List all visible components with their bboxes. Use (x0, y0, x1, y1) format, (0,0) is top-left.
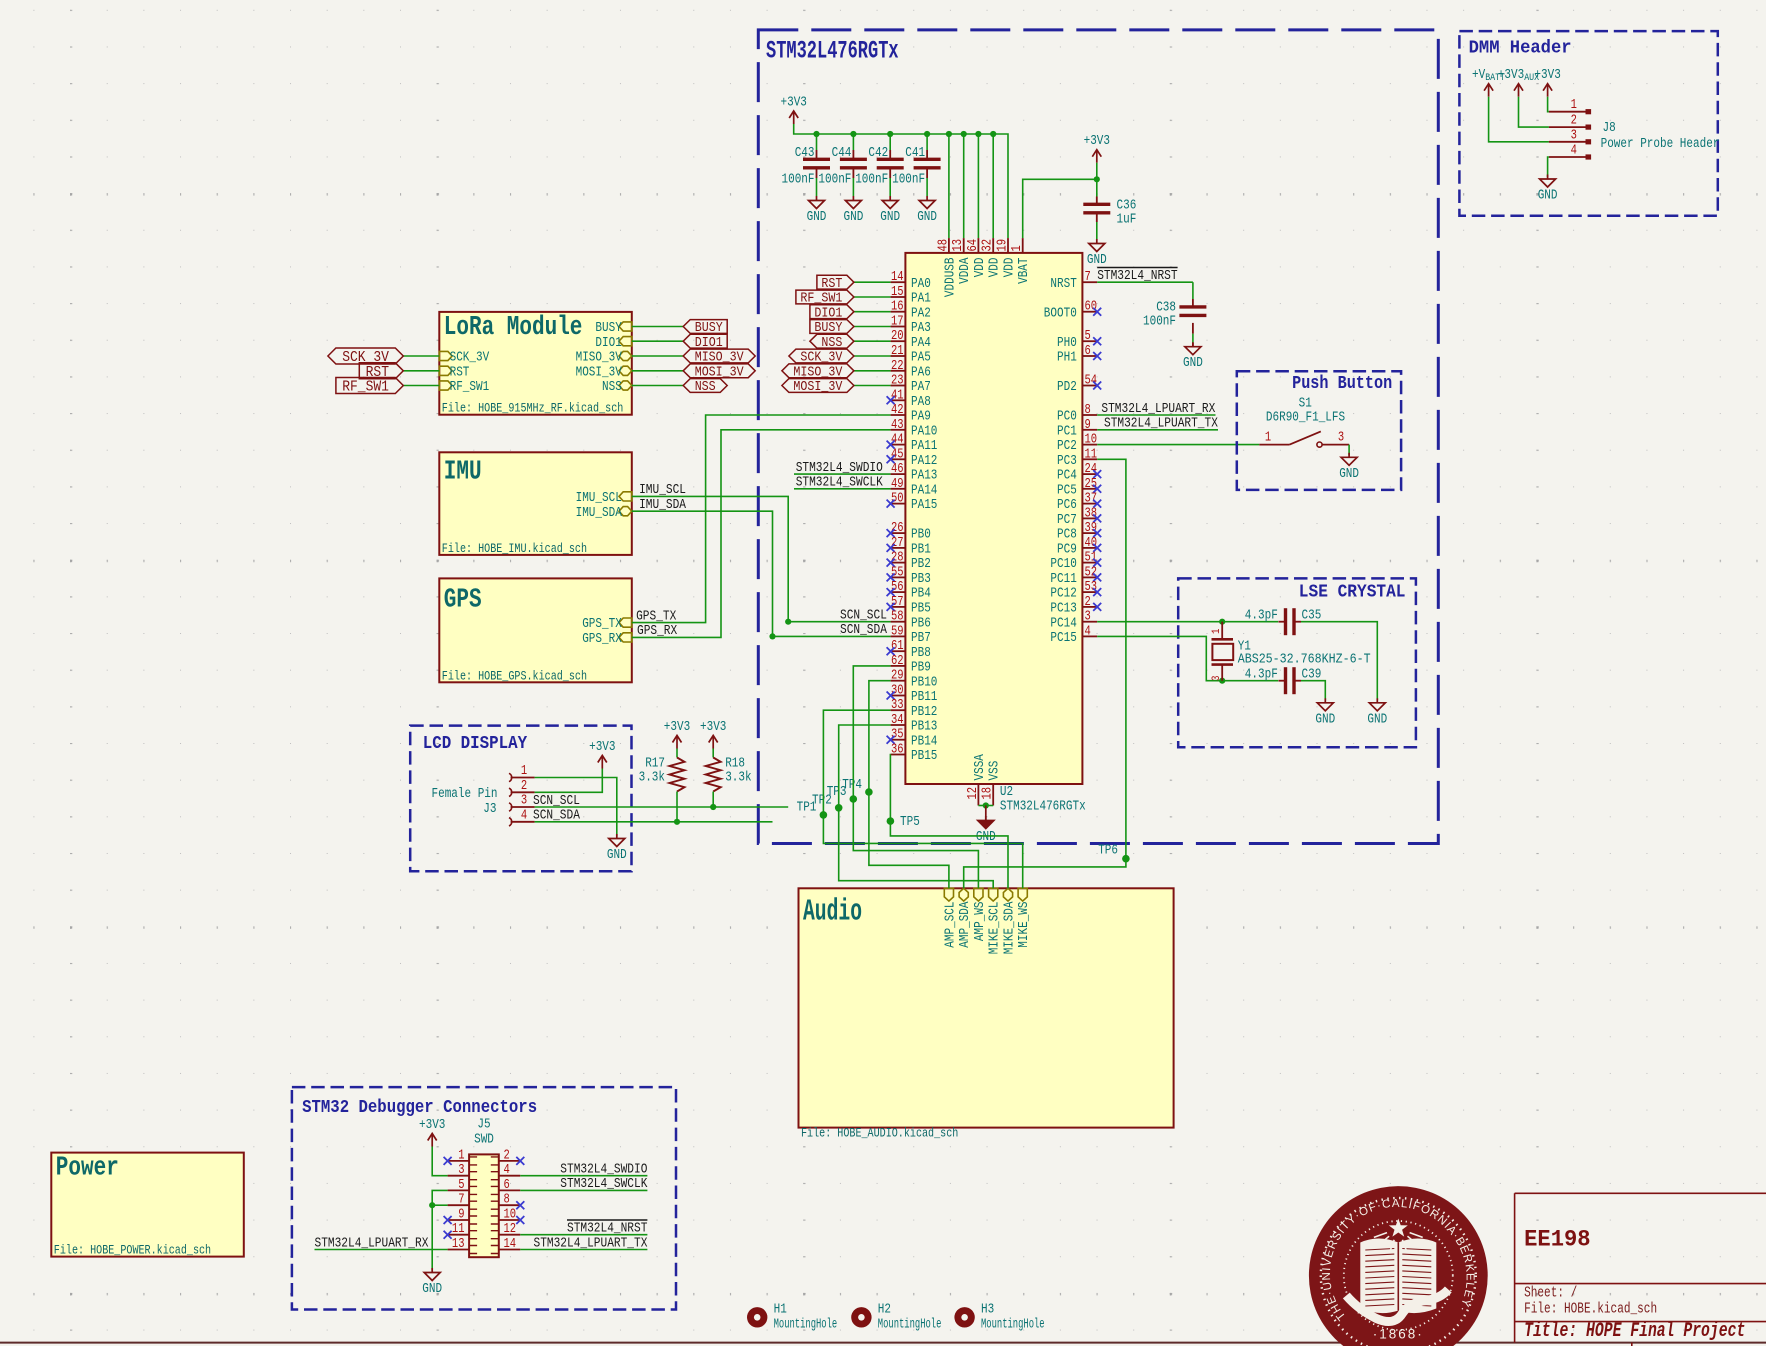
U2 pin 13 VDDA (963, 238, 965, 253)
svg-text:PA8: PA8 (911, 395, 931, 410)
junction (769, 633, 775, 639)
svg-text:7: 7 (1085, 270, 1091, 285)
U2 pin 10 PC2 (1082, 444, 1097, 446)
sheet pin IMU_SCL (619, 492, 632, 501)
U2 pin 5 PH0 (1082, 340, 1097, 342)
power +VBATT (1484, 84, 1493, 91)
svg-text:3: 3 (458, 1163, 464, 1178)
wire +3V3 to J3 pin2 (535, 769, 603, 793)
svg-text:PA6: PA6 (911, 365, 931, 380)
wire STM32L4_LPUART_RX to J5 pin13 (315, 1249, 448, 1251)
wire PB15 to MIKE_SDA (890, 755, 1008, 889)
wire PC3 to TP6 (1097, 459, 1126, 858)
power +3V3 (598, 756, 607, 763)
svg-text:GND: GND (1367, 712, 1387, 727)
svg-text:10: 10 (1085, 433, 1098, 448)
svg-text:File: HOBE_GPS.kicad_sch: File: HOBE_GPS.kicad_sch (442, 668, 587, 683)
sheet pin AMP_SCL (944, 888, 953, 901)
svg-text:Title: HOPE Final Project: Title: HOPE Final Project (1524, 1320, 1745, 1343)
svg-text:PB9: PB9 (911, 661, 931, 676)
svg-text:+3V3: +3V3 (664, 720, 690, 735)
svg-text:100nF: 100nF (855, 172, 888, 187)
svg-text:D6R90_F1_LFS: D6R90_F1_LFS (1266, 411, 1345, 426)
svg-text:STM32L4_LPUART_RX: STM32L4_LPUART_RX (1101, 401, 1215, 417)
U2 pin 56 PB4 (891, 591, 906, 593)
U2 pin 22 PA6 (891, 370, 906, 372)
svg-text:SWD: SWD (474, 1133, 494, 1148)
svg-text:AMP_SCL: AMP_SCL (943, 902, 958, 948)
svg-text:PH0: PH0 (1057, 336, 1077, 351)
sheet pin IMU_SDA (619, 507, 632, 516)
svg-text:GPS_TX: GPS_TX (636, 608, 677, 624)
no-connect (887, 736, 895, 744)
svg-text:C44: C44 (832, 146, 852, 161)
no-connect (1093, 382, 1101, 390)
U2 pin 18 VSS (992, 784, 994, 806)
svg-text:Sheet: /: Sheet: / (1524, 1285, 1577, 1302)
svg-text:1: 1 (1211, 628, 1223, 634)
svg-text:4.3pF: 4.3pF (1245, 608, 1278, 623)
global label BUSY (683, 320, 727, 334)
U2 pin 26 PB0 (891, 532, 906, 534)
svg-text:PB0: PB0 (911, 528, 931, 543)
svg-text:23: 23 (891, 374, 904, 389)
global label NSS (810, 334, 854, 348)
svg-text:PB3: PB3 (911, 572, 931, 587)
ground (926, 196, 928, 201)
svg-text:2: 2 (504, 1148, 510, 1163)
U2 pin 40 PC9 (1082, 547, 1097, 549)
no-connect (887, 588, 895, 596)
svg-text:PC7: PC7 (1057, 513, 1077, 528)
svg-text:C43: C43 (795, 146, 815, 161)
wire SCK_3V to U2 (854, 355, 891, 357)
wire PB12 to MIKE_WS (823, 710, 1022, 888)
svg-text:SCK_3V: SCK_3V (450, 351, 490, 366)
svg-text:PA12: PA12 (911, 454, 937, 469)
U2 pin 7 NRST (1082, 281, 1097, 283)
U2 pin 24 PC4 (1082, 473, 1097, 475)
junction (710, 804, 716, 810)
U2 pin 38 PC7 (1082, 517, 1097, 519)
wire VDD supply (948, 134, 950, 238)
power +3V3 (1092, 150, 1101, 157)
junction (924, 131, 930, 137)
svg-text:8: 8 (1085, 403, 1091, 418)
hierarchical sheet Audio (799, 888, 1174, 1127)
svg-text:PC10: PC10 (1050, 557, 1076, 572)
U2 pin 58 PB6 (891, 621, 906, 623)
svg-text:PA0: PA0 (911, 277, 931, 292)
no-connect (516, 1216, 524, 1224)
U2 pin 12 VSSA (977, 784, 979, 806)
U2 pin 36 PB15 (891, 754, 906, 756)
svg-text:16: 16 (891, 300, 904, 315)
svg-text:PC2: PC2 (1057, 439, 1077, 454)
ground (616, 834, 618, 839)
U2 pin 35 PB14 (891, 739, 906, 741)
svg-text:J8: J8 (1603, 121, 1616, 136)
svg-text:GND: GND (1183, 356, 1203, 371)
svg-text:PA9: PA9 (911, 410, 931, 425)
capacitor C42 100nF (889, 150, 891, 159)
svg-text:PB11: PB11 (911, 690, 937, 705)
ground (889, 196, 891, 201)
svg-text:File: HOBE.kicad_sch: File: HOBE.kicad_sch (1524, 1301, 1657, 1318)
svg-text:4: 4 (521, 808, 527, 823)
J5 pin 3 (448, 1175, 470, 1177)
svg-text:7: 7 (458, 1193, 464, 1208)
test point TP2 (835, 804, 843, 812)
hierarchical sheet GPS (439, 578, 632, 682)
svg-text:PA14: PA14 (911, 483, 937, 498)
crystal Y1 ABS25-32.768KHZ-6-T (1221, 622, 1223, 640)
svg-text:64: 64 (966, 239, 981, 252)
J3 pin 1 (509, 773, 512, 781)
wire +3V3 to J5 pin3 (432, 1147, 447, 1176)
global label SCK_3V (328, 348, 403, 364)
J5 pin 10 (499, 1219, 521, 1221)
svg-text:58: 58 (891, 610, 904, 625)
capacitor C44 100nF (852, 150, 854, 159)
ground (1096, 239, 1098, 244)
junction (946, 131, 952, 137)
no-connect (887, 692, 895, 700)
svg-text:PA7: PA7 (911, 380, 931, 395)
svg-text:S1: S1 (1299, 397, 1312, 412)
U2 pin 59 PB7 (891, 635, 906, 637)
svg-text:GND: GND (1315, 712, 1335, 727)
svg-text:GPS: GPS (444, 585, 482, 615)
annotation box STM32L476RGTx section (758, 30, 1438, 844)
U2 pin 44 PA11 (891, 444, 906, 446)
svg-text:43: 43 (891, 418, 904, 433)
wire J8 pin4 to GND (1548, 157, 1549, 177)
U2 pin 20 PA4 (891, 340, 906, 342)
svg-text:6: 6 (1085, 344, 1091, 359)
svg-text:48: 48 (936, 239, 951, 252)
capacitor C35 4.3pF (1284, 608, 1287, 635)
svg-text:STM32L4_NRST: STM32L4_NRST (567, 1221, 647, 1237)
sheet pin NSS (619, 381, 632, 390)
sheet pin MOSI_3V (619, 366, 632, 375)
power +3V3 (673, 736, 682, 743)
junction (1094, 176, 1100, 182)
power +3V3 (789, 111, 798, 118)
no-connect (516, 1201, 524, 1209)
ground (1348, 453, 1350, 458)
svg-text:NRST: NRST (1050, 277, 1076, 292)
svg-text:1: 1 (1010, 245, 1025, 251)
no-connect (1093, 500, 1101, 508)
svg-text:32: 32 (981, 239, 996, 252)
svg-text:SCN_SCL: SCN_SCL (533, 793, 580, 809)
svg-text:GND: GND (844, 210, 864, 225)
svg-text:STM32 Debugger Connectors: STM32 Debugger Connectors (302, 1098, 537, 1118)
svg-text:100nF: 100nF (892, 172, 925, 187)
global label MOSI_3V (782, 379, 854, 393)
svg-text:NSS: NSS (695, 380, 716, 395)
no-connect (1093, 514, 1101, 522)
hierarchical sheet IMU (439, 452, 632, 555)
wire STM32L4_SWCLK stub (794, 488, 891, 490)
no-connect (1093, 573, 1101, 581)
svg-text:Female Pin: Female Pin (432, 787, 498, 802)
svg-text:BUSY: BUSY (595, 321, 621, 336)
svg-text:5: 5 (1085, 329, 1091, 344)
svg-text:PC5: PC5 (1057, 483, 1077, 498)
J5 pin 5 (448, 1189, 470, 1191)
svg-text:GND: GND (807, 210, 827, 225)
svg-text:+3V3: +3V3 (1084, 134, 1110, 149)
wire MISO_3V from LoRa (632, 355, 683, 357)
svg-text:20: 20 (891, 329, 904, 344)
U2 pin 16 PA2 (891, 311, 906, 313)
svg-text:VDDUSB: VDDUSB (943, 258, 958, 298)
svg-text:STM32L4_SWDIO: STM32L4_SWDIO (796, 460, 883, 476)
svg-text:File: HOBE_915MHz_RF.kicad_sch: File: HOBE_915MHz_RF.kicad_sch (442, 401, 624, 416)
svg-text:File: HOBE_POWER.kicad_sch: File: HOBE_POWER.kicad_sch (54, 1243, 211, 1258)
svg-text:TP5: TP5 (900, 815, 920, 830)
logo UC Berkeley seal (1309, 1186, 1488, 1346)
svg-text:44: 44 (891, 433, 904, 448)
junction (990, 131, 996, 137)
capacitor C38 100nF (1179, 305, 1206, 308)
svg-text:11: 11 (452, 1222, 465, 1237)
title block (1514, 1193, 1516, 1342)
svg-text:PB4: PB4 (911, 587, 931, 602)
U2 pin 50 PA15 (891, 503, 906, 505)
no-connect (887, 500, 895, 508)
svg-text:PB14: PB14 (911, 734, 937, 749)
wire +3V3 rail (794, 124, 1008, 238)
svg-text:GND: GND (1538, 189, 1558, 204)
svg-text:H1: H1 (774, 1303, 787, 1318)
svg-text:R18: R18 (725, 757, 745, 772)
svg-text:56: 56 (891, 580, 904, 595)
wire IMU_SDA / SCN_SDA (632, 511, 773, 636)
svg-text:MountingHole: MountingHole (774, 1317, 838, 1333)
J5 pin 1 (448, 1160, 470, 1162)
svg-text:1: 1 (521, 764, 527, 779)
svg-text:Power: Power (56, 1154, 119, 1184)
svg-text:IMU: IMU (444, 457, 482, 487)
svg-text:IMU_SCL: IMU_SCL (639, 482, 686, 498)
svg-text:GND: GND (1339, 467, 1359, 482)
ground (852, 196, 854, 201)
svg-text:C36: C36 (1117, 198, 1137, 213)
svg-text:AMP_WS: AMP_WS (973, 902, 988, 942)
U2 pin 42 PA9 (891, 414, 906, 416)
sheet pin MIKE_SDA (1003, 888, 1012, 901)
global label RF_SW1 (336, 378, 403, 394)
svg-text:13: 13 (951, 239, 966, 252)
wire MOSI_3V from LoRa (632, 370, 683, 372)
J3 pin 3 (509, 803, 512, 811)
svg-text:+3V3: +3V3 (1498, 68, 1524, 83)
mounting hole H1 (747, 1307, 767, 1327)
wire VSS to GND (978, 805, 993, 807)
junction (429, 1202, 435, 1208)
U2 pin 17 PA3 (891, 326, 906, 328)
svg-text:PB5: PB5 (911, 602, 931, 617)
sheet pin MISO_3V (619, 351, 632, 360)
svg-text:27: 27 (891, 536, 904, 551)
ground (431, 1268, 433, 1273)
wire C35 to GND (1301, 622, 1377, 701)
junction (785, 619, 791, 625)
svg-text:PA4: PA4 (911, 336, 931, 351)
no-connect (1093, 603, 1101, 611)
no-connect (887, 441, 895, 449)
junction (887, 131, 893, 137)
svg-text:GPS_RX: GPS_RX (582, 632, 622, 647)
svg-text:19: 19 (996, 239, 1011, 252)
test point TP1 (820, 811, 828, 819)
svg-text:61: 61 (891, 639, 904, 654)
annotation box LSE CRYSTAL section (1178, 578, 1416, 747)
connector J5 SWD body (469, 1154, 499, 1257)
wire STM32L4_SWDIO stub (794, 473, 891, 475)
no-connect (516, 1157, 524, 1165)
svg-text:VDD: VDD (1003, 258, 1018, 278)
svg-text:PA13: PA13 (911, 469, 937, 484)
svg-text:VBAT: VBAT (1017, 258, 1032, 284)
U2 pin 1 VBAT (1022, 238, 1024, 253)
svg-text:J5: J5 (477, 1118, 490, 1133)
U2 pin 25 PC5 (1082, 488, 1097, 490)
svg-text:12: 12 (504, 1222, 517, 1237)
U2 pin 60 BOOT0 (1082, 311, 1097, 313)
svg-text:PA1: PA1 (911, 292, 931, 307)
capacitor C39 4.3pF (1284, 667, 1287, 694)
svg-text:RF_SW1: RF_SW1 (342, 379, 389, 396)
global label DIO1 (810, 305, 854, 319)
svg-text:BOOT0: BOOT0 (1044, 306, 1077, 321)
wire J5 pin5/pin7 to GND (432, 1190, 447, 1270)
wire SCN_SCL (535, 806, 789, 808)
svg-text:12: 12 (966, 787, 981, 800)
test point TP3 (850, 795, 858, 803)
svg-text:18: 18 (981, 787, 996, 800)
global label MISO_3V (683, 349, 755, 363)
svg-text:13: 13 (452, 1237, 465, 1252)
wire STM32L4_SWDIO from J5 pin4 (520, 1175, 647, 1177)
svg-text:C42: C42 (868, 146, 888, 161)
svg-text:45: 45 (891, 447, 904, 462)
U2 pin 4 PC15 (1082, 635, 1097, 637)
no-connect (444, 1231, 452, 1239)
svg-text:PC3: PC3 (1057, 454, 1077, 469)
svg-text:STM32L4_SWDIO: STM32L4_SWDIO (560, 1162, 647, 1178)
test point TP6 (1122, 855, 1130, 863)
hierarchical sheet Power (51, 1153, 244, 1257)
svg-text:21: 21 (891, 344, 904, 359)
U2 pin 32 VDD (992, 238, 994, 253)
svg-text:1uF: 1uF (1117, 212, 1137, 227)
svg-text:VSSA: VSSA (973, 753, 988, 780)
wire STM32L4_NRST from J5 pin12 (520, 1234, 647, 1236)
J5 pin 4 (499, 1175, 521, 1177)
svg-text:VSS: VSS (988, 761, 1003, 781)
J8 pin 2 (1549, 126, 1590, 128)
svg-text:U2: U2 (1000, 785, 1013, 800)
U2 pin 46 PA13 (891, 473, 906, 475)
power +3V3 (709, 736, 718, 743)
svg-text:33: 33 (891, 698, 904, 713)
U2 pin 30 PB11 (891, 695, 906, 697)
wire MOSI_3V to U2 (854, 385, 891, 387)
U2 pin 48 VDDUSB (948, 238, 950, 253)
annotation box LCD DISPLAY section (410, 726, 631, 872)
svg-text:File: HOBE_IMU.kicad_sch: File: HOBE_IMU.kicad_sch (442, 541, 587, 556)
svg-text:GND: GND (880, 210, 900, 225)
svg-text:DIO1: DIO1 (595, 336, 621, 351)
U2 pin 39 PC8 (1082, 532, 1097, 534)
svg-text:3: 3 (521, 794, 527, 809)
wire PC3/TP6 to AMP_SDA (964, 859, 1126, 889)
page frame bottom border (0, 1342, 1766, 1344)
J8 pin 3 (1549, 141, 1590, 143)
svg-text:PB13: PB13 (911, 720, 937, 735)
svg-text:H3: H3 (981, 1303, 994, 1318)
junction (983, 802, 989, 808)
svg-text:PC15: PC15 (1050, 631, 1076, 646)
svg-text:PC9: PC9 (1057, 543, 1077, 558)
svg-text:PA5: PA5 (911, 351, 931, 366)
svg-text:14: 14 (891, 270, 904, 285)
svg-text:IMU_SDA: IMU_SDA (639, 497, 686, 513)
U2 pin 33 PB12 (891, 709, 906, 711)
ground (1192, 342, 1194, 347)
svg-text:4: 4 (1571, 144, 1577, 159)
capacitor C41 100nF (926, 150, 928, 159)
U2 pin 64 VDD (977, 238, 979, 253)
wire SCN_SCL to PB6 (788, 621, 890, 623)
J5 pin 2 (499, 1160, 521, 1162)
wire NRST net (1097, 281, 1193, 283)
svg-text:PC6: PC6 (1057, 498, 1077, 513)
svg-text:3: 3 (1085, 610, 1091, 625)
svg-text:4: 4 (1085, 624, 1091, 639)
wire +3V3AUX to J8 pin2 (1519, 97, 1549, 127)
mounting hole H2 (851, 1307, 871, 1327)
capacitor C43 100nF (816, 150, 818, 159)
svg-text:17: 17 (891, 315, 904, 330)
svg-text:9: 9 (458, 1208, 464, 1223)
svg-text:LCD DISPLAY: LCD DISPLAY (423, 734, 528, 754)
ground (816, 196, 818, 201)
svg-text:·1868·: ·1868· (1373, 1327, 1424, 1342)
no-connect (1093, 308, 1101, 316)
U2 pin 41 PA8 (891, 399, 906, 401)
svg-text:Push Button: Push Button (1292, 374, 1392, 394)
wire PB10 to AMP_SCL (869, 681, 949, 889)
U2 pin 3 PC14 (1082, 621, 1097, 623)
svg-text:PB8: PB8 (911, 646, 931, 661)
U2 pin 21 PA5 (891, 355, 906, 357)
J8 pin 1 (1549, 111, 1590, 113)
svg-text:PB12: PB12 (911, 705, 937, 720)
svg-text:22: 22 (891, 359, 904, 374)
svg-text:STM32L476RGTx: STM32L476RGTx (1000, 800, 1086, 815)
svg-text:STM32L4_LPUART_RX: STM32L4_LPUART_RX (315, 1235, 429, 1251)
svg-text:VDD: VDD (988, 258, 1003, 278)
svg-text:57: 57 (891, 595, 904, 610)
U2 pin 34 PB13 (891, 724, 906, 726)
svg-text:3: 3 (1338, 431, 1344, 446)
svg-text:PC8: PC8 (1057, 528, 1077, 543)
